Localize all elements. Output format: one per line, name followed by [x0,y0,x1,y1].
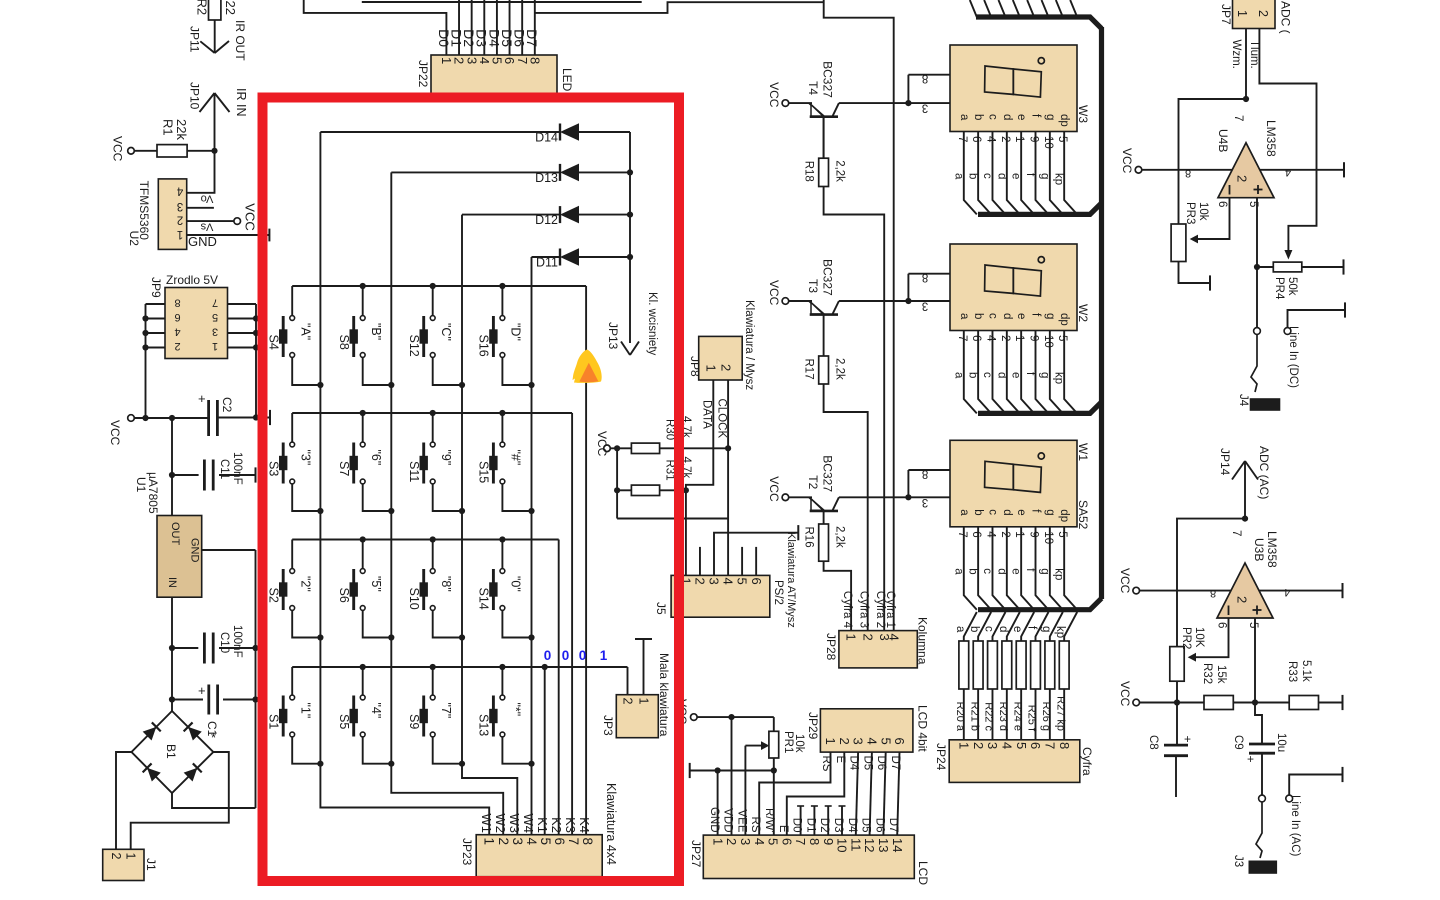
svg-text:T3: T3 [806,279,820,293]
svg-text:10: 10 [835,838,850,852]
svg-text:"D": "D" [509,323,523,341]
svg-text:IN: IN [166,577,178,588]
svg-text:JP9: JP9 [149,277,163,298]
svg-text:c: c [986,313,998,319]
svg-text:VCC: VCC [1118,681,1132,707]
svg-text:a: a [958,114,970,121]
svg-text:Klawiatura AT/Mysz: Klawiatura AT/Mysz [785,532,797,628]
svg-text:e: e [1015,313,1027,319]
svg-text:g: g [1044,114,1056,120]
svg-text:4: 4 [999,742,1014,749]
svg-text:S1: S1 [266,714,280,729]
svg-text:2: 2 [999,531,1011,537]
svg-text:2: 2 [999,136,1011,142]
svg-text:c: c [986,509,998,515]
svg-text:VEE: VEE [735,809,747,832]
svg-text:8: 8 [922,467,928,479]
svg-text:10K: 10K [1193,627,1205,648]
svg-text:"A": "A" [298,323,312,340]
svg-text:JP3: JP3 [601,715,615,736]
svg-text:6: 6 [749,578,764,585]
svg-text:e: e [1015,114,1027,120]
svg-text:1: 1 [844,634,859,641]
svg-text:"6": "6" [369,450,383,466]
svg-text:11: 11 [848,838,863,852]
svg-text:13: 13 [876,838,891,852]
svg-text:R18: R18 [803,161,815,182]
svg-text:7: 7 [212,297,218,309]
svg-text:10k: 10k [1197,202,1209,221]
svg-text:g: g [1038,568,1050,574]
svg-text:0: 0 [544,648,552,663]
svg-text:3: 3 [212,326,218,338]
svg-text:50k: 50k [1286,277,1298,296]
svg-text:R16: R16 [803,527,815,548]
svg-text:g: g [1038,173,1050,179]
svg-text:R1: R1 [161,119,176,136]
svg-text:6: 6 [970,531,982,537]
svg-text:K3: K3 [563,817,578,833]
svg-text:e: e [1010,568,1022,574]
svg-text:"7": "7" [439,703,453,719]
svg-text:a: a [954,626,966,633]
svg-text:S2: S2 [266,588,280,603]
svg-text:d: d [995,173,1007,179]
svg-text:b: b [967,568,979,574]
svg-text:ADC (: ADC ( [1278,1,1292,34]
svg-text:JP29: JP29 [806,712,820,740]
svg-text:S14: S14 [477,588,491,610]
svg-text:U4B: U4B [1216,129,1230,152]
svg-text:4: 4 [887,634,902,641]
svg-text:S12: S12 [407,335,421,357]
svg-text:U1: U1 [134,477,148,493]
svg-text:ADC (AC): ADC (AC) [1257,446,1271,499]
svg-text:R/W': R/W' [763,808,775,833]
svg-text:7: 7 [956,335,968,341]
svg-text:Cyfra 4: Cyfra 4 [841,591,853,629]
svg-text:Line In (AC): Line In (AC) [1289,795,1301,857]
svg-text:JP23: JP23 [460,838,474,866]
svg-text:J3: J3 [1232,855,1244,867]
svg-text:R17: R17 [803,359,815,380]
svg-text:JP24: JP24 [934,743,948,771]
svg-text:8: 8 [1057,742,1072,749]
svg-text:5: 5 [735,578,750,585]
svg-text:22k: 22k [174,119,189,140]
svg-text:5: 5 [766,838,781,845]
svg-text:2: 2 [1235,175,1250,182]
svg-text:S3: S3 [266,461,280,476]
svg-text:T4: T4 [806,81,820,95]
svg-text:b: b [972,509,984,515]
svg-text:Line In (DC): Line In (DC) [1287,326,1299,388]
svg-text:VCC: VCC [767,82,781,108]
svg-text:6: 6 [1216,201,1228,207]
svg-text:7: 7 [956,531,968,537]
svg-text:6: 6 [1216,622,1228,628]
svg-text:9: 9 [1028,136,1040,142]
svg-text:kp: kp [1053,372,1065,384]
svg-text:4: 4 [984,335,996,342]
svg-text:2: 2 [693,578,708,585]
svg-text:c: c [981,173,993,179]
svg-text:S9: S9 [407,714,421,729]
svg-text:S16: S16 [477,335,491,357]
svg-text:1: 1 [1013,335,1025,341]
svg-text:3: 3 [738,838,753,845]
svg-text:D12: D12 [535,213,558,227]
svg-text:W2: W2 [493,814,508,834]
svg-text:T2: T2 [806,475,820,489]
svg-text:J5: J5 [654,602,668,615]
svg-text:8: 8 [174,297,180,309]
svg-text:K2: K2 [549,817,564,833]
svg-text:d: d [1001,313,1013,319]
svg-text:1: 1 [123,853,137,860]
svg-text:e: e [1015,509,1027,515]
svg-text:PR2: PR2 [1180,627,1192,649]
svg-text:2: 2 [837,738,852,745]
svg-text:4: 4 [1284,586,1290,598]
svg-text:1: 1 [956,742,971,749]
svg-text:d: d [1001,509,1013,515]
svg-text:GND: GND [189,538,201,563]
svg-text:R22 c: R22 c [983,702,995,731]
svg-text:E: E [777,825,789,833]
svg-text:g: g [1044,313,1056,319]
svg-text:CLOCK: CLOCK [716,399,728,439]
svg-text:b: b [972,313,984,319]
svg-text:R30: R30 [663,419,675,440]
svg-text:9: 9 [1028,335,1040,341]
svg-text:5: 5 [1056,335,1068,341]
svg-text:R23 d: R23 d [997,702,1009,731]
svg-text:6: 6 [552,838,567,846]
svg-text:4: 4 [865,738,880,745]
svg-text:W1: W1 [1076,443,1090,461]
svg-text:TFMS5360: TFMS5360 [137,181,151,241]
svg-text:JP8: JP8 [688,356,702,377]
svg-text:10: 10 [1042,531,1054,544]
svg-text:VCC: VCC [108,420,122,446]
svg-text:3: 3 [985,742,1000,749]
svg-text:2: 2 [999,335,1011,341]
svg-text:8: 8 [1185,167,1191,179]
svg-text:2: 2 [860,634,875,641]
svg-text:6: 6 [892,738,907,745]
svg-text:Tlum.: Tlum. [1248,40,1260,69]
svg-text:SA52: SA52 [1076,500,1090,530]
svg-text:1: 1 [600,648,608,663]
svg-text:"2": "2" [298,576,312,592]
svg-text:C8: C8 [1147,735,1159,750]
svg-text:Vs: Vs [200,221,213,233]
svg-text:S4: S4 [266,335,280,350]
svg-text:S6: S6 [337,588,351,603]
svg-text:R25 f: R25 f [1026,705,1038,732]
svg-text:8: 8 [580,838,595,846]
svg-text:6: 6 [779,838,794,845]
svg-text:LCD 4bit: LCD 4bit [915,705,929,752]
svg-text:b: b [967,372,979,378]
svg-text:8: 8 [922,72,928,84]
svg-text:c: c [982,626,994,632]
svg-text:3: 3 [177,200,183,212]
svg-text:dp: dp [1058,114,1070,127]
svg-text:GND: GND [708,807,720,833]
svg-text:10k: 10k [793,734,805,753]
svg-text:S8: S8 [337,335,351,350]
svg-text:kp: kp [1053,173,1065,185]
svg-text:Cyfra 1: Cyfra 1 [884,591,896,628]
svg-text:"1": "1" [298,703,312,719]
svg-text:1: 1 [482,838,497,846]
svg-text:C10: C10 [218,632,230,653]
svg-text:a: a [952,372,964,379]
svg-text:OUT: OUT [169,522,181,546]
svg-text:D7: D7 [887,818,899,833]
svg-text:JP7: JP7 [1219,4,1233,25]
svg-text:8: 8 [807,838,822,845]
svg-text:LM358: LM358 [1265,531,1279,568]
svg-text:LED: LED [560,68,574,92]
svg-text:1: 1 [710,838,725,845]
svg-text:W3: W3 [507,814,522,834]
svg-text:10u: 10u [1275,733,1287,752]
svg-text:7: 7 [1042,742,1057,749]
svg-text:Kolumna: Kolumna [915,617,929,665]
svg-text:e: e [1011,626,1023,632]
svg-text:JP22: JP22 [416,60,430,88]
svg-text:2: 2 [177,214,183,226]
svg-text:C9: C9 [1232,735,1244,750]
svg-text:g: g [1038,372,1050,378]
svg-text:Klawiatura / Mysz: Klawiatura / Mysz [743,300,755,390]
svg-text:b: b [972,114,984,120]
svg-text:D13: D13 [535,171,558,185]
svg-text:0: 0 [562,648,570,663]
svg-text:6: 6 [970,136,982,142]
svg-text:9: 9 [1028,531,1040,537]
svg-text:b: b [968,626,980,632]
svg-text:2: 2 [1256,10,1270,17]
svg-text:14: 14 [890,838,905,852]
svg-text:PR4: PR4 [1273,277,1285,300]
svg-text:3: 3 [707,578,722,585]
svg-text:5: 5 [1056,136,1068,142]
svg-text:10: 10 [1042,136,1054,149]
svg-text:1: 1 [1235,10,1249,17]
svg-text:8: 8 [1210,587,1216,599]
svg-text:JP27: JP27 [689,840,703,868]
svg-text:S5: S5 [337,714,351,729]
svg-text:1: 1 [177,228,183,240]
svg-text:S10: S10 [407,588,421,610]
svg-text:VCC: VCC [767,476,781,502]
svg-text:"3": "3" [298,450,312,466]
svg-text:kp: kp [1053,568,1065,580]
svg-text:2: 2 [724,838,739,845]
svg-text:2,2k: 2,2k [834,160,846,182]
svg-text:22: 22 [223,1,238,15]
svg-text:IR OUT: IR OUT [233,20,247,61]
svg-text:5: 5 [878,738,893,745]
svg-text:7: 7 [1230,530,1242,536]
svg-text:R20 a: R20 a [954,702,966,732]
svg-text:Kl. wcisniety: Kl. wcisniety [646,292,658,356]
svg-text:2,2k: 2,2k [834,526,846,548]
svg-text:VCC: VCC [1118,568,1132,594]
svg-text:Vo: Vo [201,193,214,205]
svg-text:GND: GND [188,234,217,249]
svg-text:W3: W3 [1076,105,1090,123]
svg-text:2,2k: 2,2k [834,358,846,380]
svg-text:IR IN: IR IN [234,88,248,116]
svg-text:J4: J4 [1237,394,1249,407]
svg-text:4: 4 [984,136,996,143]
svg-text:1: 1 [212,340,218,352]
svg-text:C2: C2 [220,397,234,413]
svg-text:"5": "5" [369,576,383,592]
svg-text:VCC: VCC [1120,148,1134,174]
svg-text:D5: D5 [860,818,872,833]
svg-text:+: + [198,683,206,698]
svg-text:1: 1 [823,738,838,745]
svg-text:e: e [1010,372,1022,378]
svg-text:"B": "B" [369,323,383,340]
svg-text:R26 g: R26 g [1040,702,1052,731]
svg-text:7: 7 [1232,115,1244,121]
svg-text:10: 10 [1042,335,1054,348]
svg-text:a: a [958,509,970,516]
svg-text:+: + [198,391,206,406]
svg-text:d: d [997,626,1009,632]
svg-text:9: 9 [821,838,836,845]
svg-text:Zrodlo 5V: Zrodlo 5V [166,273,218,287]
svg-text:4: 4 [752,838,767,845]
svg-text:a: a [952,173,964,180]
svg-text:2: 2 [620,698,634,705]
svg-text:2: 2 [496,838,511,846]
svg-text:JP13: JP13 [606,322,620,350]
svg-text:d: d [995,372,1007,378]
svg-text:LCD: LCD [916,861,930,885]
svg-text:PS/2: PS/2 [772,580,784,605]
svg-text:RS: RS [749,817,761,833]
svg-text:R27 kp: R27 kp [1054,696,1066,731]
svg-text:Cyfra: Cyfra [1080,747,1094,776]
svg-text:c: c [986,114,998,120]
svg-text:2: 2 [109,853,123,860]
svg-text:7: 7 [793,838,808,845]
svg-text:8: 8 [527,57,542,64]
svg-text:6: 6 [1028,742,1043,749]
svg-text:µA7805: µA7805 [146,472,160,514]
svg-text:4: 4 [984,531,996,538]
svg-text:Mala klawiatura: Mala klawiatura [657,653,671,737]
svg-text:5: 5 [1056,531,1068,537]
svg-text:"C": "C" [439,323,453,341]
svg-text:PR1: PR1 [782,731,794,753]
svg-text:0: 0 [579,648,587,663]
svg-text:"9": "9" [439,450,453,466]
svg-text:e: e [1010,173,1022,179]
svg-text:d: d [995,568,1007,574]
svg-text:12: 12 [862,838,877,852]
svg-text:2: 2 [174,340,180,352]
svg-text:15k: 15k [1215,665,1227,684]
svg-text:4: 4 [1285,166,1291,178]
svg-text:kp: kp [1054,626,1066,638]
svg-text:VCC: VCC [243,203,258,230]
svg-text:1: 1 [704,365,719,372]
svg-text:U3B: U3B [1252,538,1266,561]
svg-text:D7: D7 [524,29,540,47]
svg-text:R33: R33 [1286,661,1298,682]
svg-text:3: 3 [922,496,928,508]
svg-text:JP11: JP11 [187,26,201,53]
svg-text:W4: W4 [521,814,536,834]
svg-text:J1: J1 [144,858,158,871]
svg-text:C11: C11 [218,459,230,479]
svg-text:4: 4 [721,578,736,585]
svg-text:*: * [211,730,216,745]
svg-text:g: g [1040,626,1052,632]
svg-text:2: 2 [719,364,734,371]
svg-text:D4: D4 [846,818,858,833]
svg-text:VDD: VDD [722,808,734,832]
svg-text:3: 3 [922,300,928,312]
svg-text:3: 3 [851,738,866,745]
svg-text:dp: dp [1058,313,1070,326]
svg-text:"8": "8" [439,576,453,592]
svg-text:a: a [958,313,970,320]
svg-text:1: 1 [636,698,650,705]
svg-text:b: b [967,173,979,179]
svg-text:S11: S11 [407,461,421,482]
svg-text:d: d [1001,114,1013,120]
svg-text:R32: R32 [1201,663,1213,684]
svg-text:1: 1 [1013,136,1025,142]
svg-text:JP14: JP14 [1218,448,1232,476]
svg-text:"*": "*" [509,703,523,717]
svg-text:LM358: LM358 [1264,120,1278,157]
svg-text:B1: B1 [164,744,178,759]
svg-text:Cyfra 3: Cyfra 3 [858,591,870,628]
svg-text:S13: S13 [477,714,491,736]
svg-text:1: 1 [1013,531,1025,537]
svg-text:5: 5 [1014,742,1029,749]
svg-text:S15: S15 [477,461,491,483]
svg-text:JP10: JP10 [187,82,201,110]
svg-text:Klawiatura 4x4: Klawiatura 4x4 [604,783,618,865]
svg-text:dp: dp [1058,509,1070,522]
svg-text:4: 4 [176,185,183,197]
svg-text:8: 8 [922,271,928,283]
svg-text:2: 2 [1235,596,1250,603]
svg-text:c: c [981,372,993,378]
svg-text:K1: K1 [535,817,550,833]
svg-text:JP28: JP28 [824,633,838,661]
svg-text:DATA: DATA [701,400,713,429]
svg-text:"#": "#" [509,450,523,466]
svg-text:BC327: BC327 [820,61,834,98]
svg-text:+: + [1247,752,1254,766]
svg-text:BC327: BC327 [820,455,834,492]
svg-text:7: 7 [956,136,968,142]
svg-text:PR3: PR3 [1184,202,1196,224]
